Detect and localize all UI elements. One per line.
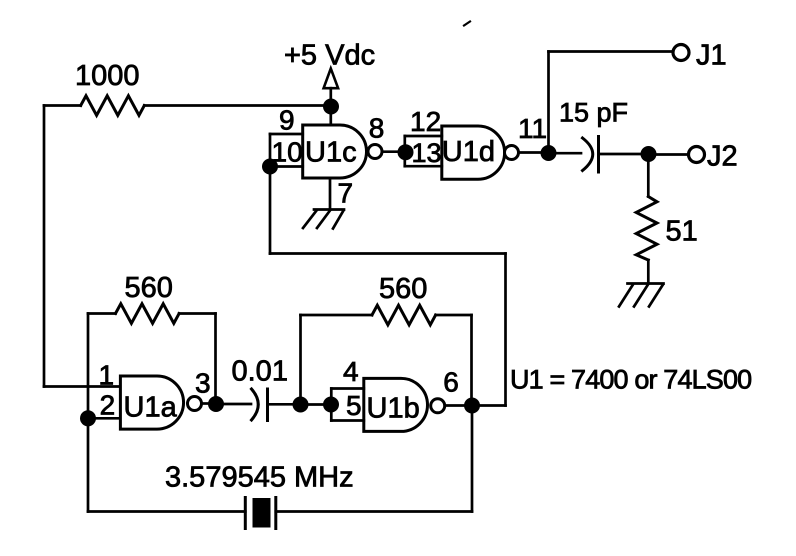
wire: feedback to U1b output node (472, 404, 506, 407)
svg-text:U1 = 7400 or 74LS00: U1 = 7400 or 74LS00 (510, 365, 751, 395)
wire: vertical tying pins 12 and 13 (403, 136, 406, 166)
NAND gate U1b body (364, 378, 428, 431)
wire: feedback U1c input node down (269, 167, 272, 254)
gate bubble U1c output (368, 145, 382, 159)
svg-text:3.579545 MHz: 3.579545 MHz (165, 462, 354, 494)
NAND gate U1c body (303, 125, 367, 178)
svg-text:51: 51 (666, 216, 698, 248)
ground (51 resistor) (619, 284, 664, 307)
node junction U1c input (262, 159, 278, 175)
wire: left 560 to U1a output vertical (179, 312, 215, 315)
wire: U1c output to U1d input (382, 150, 398, 153)
NAND gate U1a body (120, 376, 183, 429)
wire: 15pF to J2 node (599, 153, 641, 156)
pin 9 wire (270, 133, 303, 136)
wire: vertical tying pins 4 and 5 (330, 389, 333, 421)
wire: between nodes (301, 403, 332, 406)
wire: vertical down to U1a output node (214, 314, 217, 405)
wire: right 560 loop right vertical (470, 315, 473, 406)
connector J1 (673, 45, 689, 61)
gate bubble U1a output (188, 397, 202, 411)
svg-text:5: 5 (346, 390, 362, 421)
svg-text:1000: 1000 (75, 60, 140, 92)
resistor 1000 (81, 96, 145, 116)
svg-text:11: 11 (518, 113, 547, 144)
wire: right 560 loop left vertical (299, 315, 302, 405)
wire: feedback horizontal (270, 252, 506, 255)
wire: 51 resistor to ground (647, 260, 650, 284)
gate bubble U1b output (431, 399, 445, 413)
wire: horizontal to J1 connector (549, 50, 672, 53)
node junction 560 right loop (293, 397, 309, 413)
svg-text:9: 9 (279, 105, 295, 136)
wire: right 560 loop top left (301, 314, 373, 317)
wire: crystal up to U1b output node (471, 406, 474, 512)
svg-text:2: 2 (100, 390, 116, 421)
svg-text:U1c: U1c (305, 137, 357, 169)
pin 7 wire (329, 178, 332, 210)
wire: feedback vertical right (504, 254, 507, 406)
node junction J2/51 (641, 146, 657, 162)
wire: +5V arrow down to U1c top (329, 88, 332, 125)
wire: U1b output to node (447, 404, 465, 407)
wire: U1a output to node (203, 402, 211, 405)
svg-text:560: 560 (379, 273, 427, 305)
power symbol +5 Vdc arrow (324, 69, 339, 89)
wire: 0.01 cap to 560 node (268, 403, 293, 406)
NAND gate U1d body (442, 126, 505, 179)
connector J2 (689, 147, 705, 163)
pin 12 wire (405, 135, 442, 138)
svg-text:U1b: U1b (367, 393, 420, 425)
pin 4 wire (331, 387, 364, 390)
svg-text:12: 12 (410, 106, 441, 137)
wire: left vertical from R1000 node down to U1a pin1 (43, 106, 46, 387)
node junction +5V / 1000 (323, 99, 339, 115)
wire: output node to 15pF capacitor (549, 152, 582, 155)
capacitor 15 pF (583, 137, 599, 173)
stray mark (464, 22, 470, 26)
wire: J2 node down to 51 resistor (647, 154, 650, 197)
svg-text:7: 7 (338, 178, 354, 209)
svg-text:1: 1 (99, 360, 115, 391)
svg-text:U1d: U1d (442, 136, 495, 168)
svg-text:6: 6 (443, 367, 459, 398)
wire: top horizontal left lead of 1000 resistor (44, 104, 81, 107)
wire: output node up to J1 (547, 52, 550, 154)
wire: crystal bottom left (88, 510, 245, 513)
svg-text:J2: J2 (707, 141, 738, 173)
pin 2 wire (88, 417, 120, 420)
resistor 560 (left) (116, 304, 180, 324)
svg-text:U1a: U1a (124, 392, 178, 424)
node junction U1b input (323, 397, 339, 413)
resistor 51 (636, 197, 657, 261)
wire: U1a output node to 0.01 cap (216, 403, 251, 406)
pin 5 wire (331, 419, 364, 422)
wire: node to J2 connector (649, 153, 688, 156)
svg-text:13: 13 (412, 138, 442, 168)
wire: left 560 loop top (88, 312, 116, 315)
node junction U1b output (464, 398, 480, 414)
node junction U1a output (208, 396, 224, 412)
pin 1 wire (44, 385, 120, 388)
gate bubble U1d output (505, 146, 519, 160)
ground (pin 7) (303, 210, 344, 229)
svg-text:8: 8 (369, 113, 385, 144)
node junction U1d output (541, 145, 557, 161)
node junction U1d input (398, 144, 414, 160)
pin 13 wire (405, 165, 442, 168)
crystal 3.579545 MHz (245, 498, 275, 529)
resistor 560 (right) (372, 305, 436, 325)
pin 10 wire (270, 165, 303, 168)
wire: from 1000 resistor to +5V node (144, 104, 331, 107)
svg-text:560: 560 (125, 272, 173, 304)
svg-text:15 pF: 15 pF (559, 98, 628, 128)
svg-text:+5 Vdc: +5 Vdc (284, 40, 375, 72)
wire: left 560 loop vertical down through pin2 to crystal (87, 314, 90, 512)
svg-text:J1: J1 (696, 40, 727, 72)
wire: U1d output to output node (519, 151, 541, 154)
wire: crystal bottom right (276, 510, 472, 513)
capacitor 0.01 (252, 389, 268, 421)
wire: right 560 loop top right (436, 314, 472, 317)
svg-text:4: 4 (343, 356, 359, 387)
node junction U1a pin2 (80, 410, 96, 426)
svg-text:0.01: 0.01 (232, 356, 288, 388)
svg-text:3: 3 (195, 368, 211, 399)
wire: vertical tying pins 9 and 10 (269, 134, 272, 167)
